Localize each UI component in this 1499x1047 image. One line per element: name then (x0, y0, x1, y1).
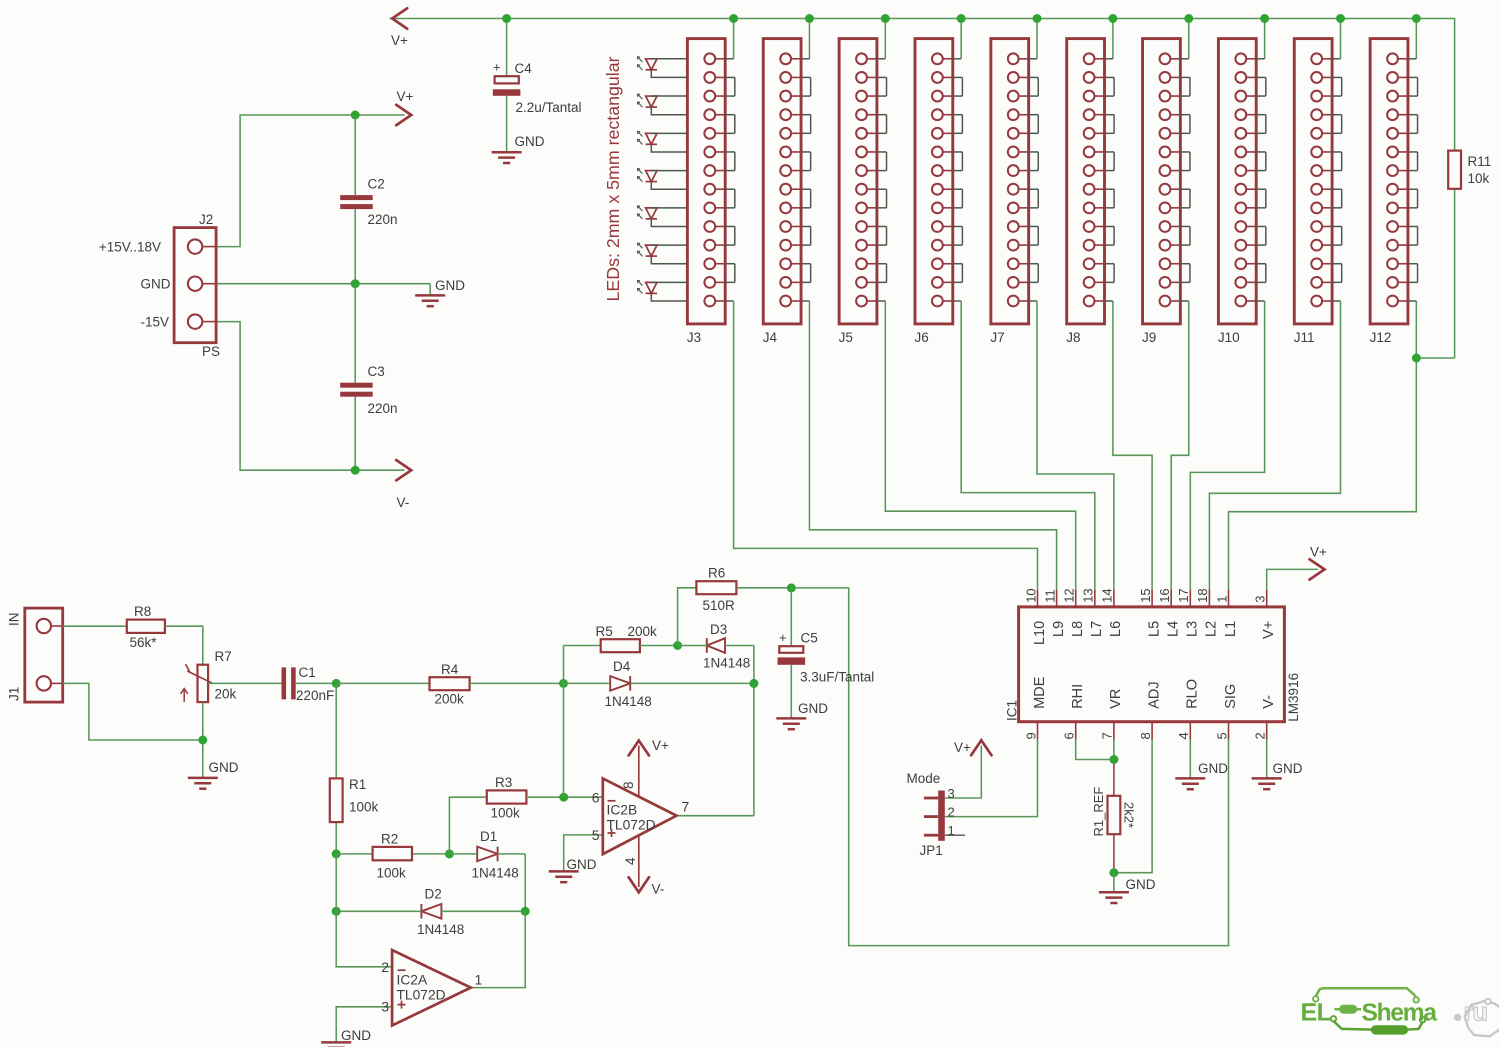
svg-text:7: 7 (1100, 732, 1115, 739)
wire rail to J6 pin1 (960, 19, 962, 59)
svg-text:2.2u/Tantal: 2.2u/Tantal (516, 100, 582, 115)
resistor R1 (330, 777, 379, 822)
wire J3 to IC1 (734, 301, 1038, 590)
svg-text:220n: 220n (368, 401, 398, 416)
pin pair tabs J5 (877, 59, 887, 301)
ground IC1 V- (1252, 761, 1303, 789)
svg-text:J4: J4 (763, 330, 778, 345)
svg-text:SIG: SIG (1223, 684, 1239, 709)
connector J3 (687, 39, 725, 345)
svg-text:RHI: RHI (1070, 684, 1086, 709)
wire IC1 pin3 to V+ (1267, 569, 1318, 589)
svg-text:IC2A: IC2A (397, 973, 428, 988)
junction R1-R2 (332, 849, 341, 858)
connector J4 (763, 39, 801, 345)
svg-text:L10: L10 (1032, 621, 1048, 645)
junction rail-C4 (502, 14, 511, 23)
svg-text:15: 15 (1138, 588, 1153, 602)
svg-text:GND: GND (1273, 761, 1303, 776)
junction rail-J5 (881, 14, 890, 23)
svg-text:J5: J5 (839, 330, 853, 345)
svg-text:D2: D2 (425, 887, 442, 902)
svg-text:J1: J1 (7, 687, 22, 701)
diode D2 (336, 887, 525, 938)
resistor R6 (696, 566, 736, 614)
wire R3 branch (449, 797, 486, 854)
resistor R11 (1448, 151, 1491, 189)
svg-text:17: 17 (1176, 588, 1191, 602)
wire R1 leads (335, 683, 337, 854)
wire node A to R4 (336, 682, 429, 684)
svg-text:+: + (493, 60, 501, 75)
junction V+ PS (351, 111, 360, 120)
wire C3 leads (354, 284, 356, 471)
wire J1 pin2 to ground node (63, 683, 203, 740)
capacitor C3 (340, 364, 397, 416)
connector J8 (1066, 39, 1104, 345)
svg-text:GND: GND (209, 760, 239, 775)
wire C2 leads (354, 115, 356, 284)
svg-text:GND: GND (1198, 761, 1228, 776)
junction rail-J4 (805, 14, 814, 23)
connector J7 (990, 39, 1028, 345)
wire J9 to IC1 (1171, 301, 1189, 590)
svg-text:GND: GND (1126, 877, 1156, 892)
wire IC2B output (677, 815, 754, 817)
svg-text:V+: V+ (652, 738, 669, 753)
svg-text:100k: 100k (349, 800, 379, 815)
svg-text:GND: GND (567, 857, 597, 872)
svg-text:GND: GND (141, 277, 171, 292)
capacitor C5 (778, 630, 875, 685)
resistor R1_REF (1091, 787, 1136, 873)
svg-text:4: 4 (1176, 732, 1191, 739)
junction V- PS (351, 466, 360, 475)
svg-text:2: 2 (1253, 732, 1268, 739)
svg-text:IN: IN (7, 613, 22, 627)
svg-text:C1: C1 (299, 665, 316, 680)
svg-text:510R: 510R (703, 598, 736, 613)
junction C5 node (787, 583, 796, 592)
wire RLO to ground (1189, 740, 1191, 778)
svg-text:L7: L7 (1089, 621, 1105, 637)
svg-text:V+: V+ (1261, 621, 1277, 639)
svg-text:C4: C4 (515, 61, 533, 76)
svg-text:3: 3 (381, 999, 389, 1015)
svg-text:+15V..18V: +15V..18V (99, 240, 161, 255)
svg-text:6: 6 (1062, 732, 1077, 739)
svg-text:R7: R7 (215, 649, 232, 664)
connector J1 (7, 608, 63, 702)
wire RHI to VR node (1076, 740, 1114, 760)
svg-text:IC1: IC1 (1005, 700, 1020, 721)
wire rail to J12 pin1 (1415, 19, 1417, 59)
svg-text:V-: V- (1261, 695, 1277, 709)
svg-text:R2: R2 (381, 832, 398, 847)
junction node D (673, 641, 682, 650)
svg-text:RLO: RLO (1185, 679, 1201, 709)
wire R2 leads (336, 853, 449, 855)
svg-text:R6: R6 (708, 566, 725, 581)
ground PS (415, 278, 465, 306)
svg-text:C5: C5 (801, 631, 818, 646)
resistor R3 (487, 775, 527, 821)
LED 4 on J3 (638, 169, 688, 190)
svg-text:3: 3 (1253, 596, 1268, 603)
wire rail to J10 pin1 (1264, 19, 1266, 59)
wire J12 to IC1 (1229, 301, 1417, 590)
wire rail to J9 pin1 (1188, 19, 1190, 59)
svg-text:1N4148: 1N4148 (605, 694, 652, 709)
svg-text:L2: L2 (1204, 621, 1220, 637)
svg-text:200k: 200k (435, 692, 465, 707)
wire R1 node to IC2A pin2 (336, 854, 392, 967)
pin pair tabs J12 (1408, 59, 1418, 301)
svg-text:VR: VR (1108, 689, 1124, 709)
svg-text:1: 1 (1214, 596, 1229, 603)
svg-text:J12: J12 (1370, 330, 1392, 345)
junction rail-J3 (729, 14, 738, 23)
svg-text:R1_REF: R1_REF (1091, 787, 1106, 837)
svg-text:L8: L8 (1070, 621, 1086, 637)
junction input ground (198, 736, 207, 745)
junction R3-node C (559, 793, 568, 802)
junction R2-D1-R3 (445, 849, 454, 858)
wire C1 to node A (296, 682, 337, 684)
diode D1 (449, 829, 525, 881)
connector J5 (839, 39, 877, 345)
wire R11 leads (1416, 189, 1454, 358)
connector J11 (1294, 39, 1332, 345)
svg-text:2: 2 (948, 805, 955, 820)
svg-text:L6: L6 (1108, 621, 1124, 637)
svg-text:IC2B: IC2B (607, 803, 638, 818)
wire D3-D4 feedback (753, 646, 755, 816)
svg-text:220n: 220n (368, 212, 398, 227)
wire R7 wiper to C1 (208, 682, 281, 684)
wire V+ stub PS (355, 114, 404, 116)
wire J2 pin1 to V+ node (216, 115, 355, 247)
wire JP1 pin3 to V+ (945, 746, 982, 799)
wire J4 to IC1 (809, 301, 1056, 590)
wire J10 to IC1 (1190, 301, 1264, 590)
svg-text:V+: V+ (954, 740, 971, 755)
connector J12 (1370, 39, 1408, 345)
junction GND PS (351, 279, 360, 288)
junction rail-J6 (957, 14, 966, 23)
svg-text:TL072D: TL072D (397, 988, 446, 1003)
junction J12-R11 (1412, 354, 1421, 363)
svg-text:3.3uF/Tantal: 3.3uF/Tantal (800, 670, 874, 685)
pin pair tabs J4 (801, 59, 811, 301)
connector J10 (1218, 39, 1256, 345)
junction rail-J8 (1108, 14, 1117, 23)
wire node B to R5 (564, 645, 601, 647)
svg-text:11: 11 (1042, 589, 1057, 603)
wire J5 to IC1 (885, 301, 1075, 590)
wire J6 to IC1 (961, 301, 1095, 590)
svg-text:1N4148: 1N4148 (472, 866, 519, 881)
svg-text:J10: J10 (1218, 330, 1240, 345)
svg-text:Mode: Mode (907, 771, 941, 786)
V+ arrow top-left (391, 8, 408, 48)
svg-text:12: 12 (1062, 588, 1077, 602)
svg-text:R4: R4 (441, 662, 459, 677)
resistor R4 (430, 662, 470, 707)
svg-text:14: 14 (1100, 588, 1115, 602)
svg-text:1N4148: 1N4148 (417, 922, 464, 937)
ground C4 (492, 134, 545, 163)
LED 1 on J3 (638, 57, 688, 78)
svg-text:9: 9 (1023, 732, 1038, 739)
diode D4 (564, 659, 754, 709)
svg-text:V+: V+ (397, 89, 414, 104)
wire R6 branch (678, 588, 697, 646)
svg-text:MDE: MDE (1032, 676, 1048, 709)
pin pair tabs J8 (1105, 59, 1115, 301)
svg-text:R11: R11 (1468, 154, 1492, 169)
pin pair tabs J11 (1332, 59, 1342, 301)
wire MDE to JP1 pin2 (945, 740, 1038, 817)
wire R8 to R7 (165, 626, 203, 665)
LED 2 on J3 (638, 94, 688, 115)
ground RLO (1175, 761, 1228, 789)
wire R6 to C5 node (736, 587, 791, 589)
wire R1_REF node to ground (1113, 873, 1115, 892)
svg-text:4: 4 (623, 857, 638, 865)
svg-text:R8: R8 (134, 604, 151, 619)
junction node A (332, 679, 341, 688)
svg-text:L1: L1 (1223, 621, 1239, 637)
wire C5 leads (790, 588, 792, 718)
wire rail to J11 pin1 (1339, 19, 1341, 59)
svg-text:3: 3 (948, 786, 955, 801)
wire VR to R1_REF (1113, 740, 1115, 796)
LED 6 on J3 (638, 243, 688, 264)
svg-text:13: 13 (1081, 588, 1096, 602)
wire J1 pin1 to R8 (63, 625, 127, 627)
svg-text:LEDs: 2mm x 5mm rectangular: LEDs: 2mm x 5mm rectangular (603, 56, 623, 301)
wire J7 to IC1 (1037, 301, 1114, 590)
resistor R5 (596, 624, 658, 652)
wire C4 to rail (506, 19, 508, 152)
wire GND row PS (216, 284, 430, 295)
junction rail-J9 (1184, 14, 1193, 23)
svg-text:J2: J2 (199, 212, 213, 227)
wire R4 to node B (470, 682, 564, 684)
LED 5 on J3 (638, 206, 688, 227)
svg-text:56k*: 56k* (130, 635, 158, 650)
svg-text:R1: R1 (349, 777, 366, 792)
capacitor C1 (282, 665, 335, 703)
svg-text:10k: 10k (1468, 171, 1490, 186)
svg-text:1: 1 (948, 823, 955, 838)
label LEDs note (603, 56, 623, 301)
ground IC2A (321, 1028, 371, 1047)
potentiometer R7 (181, 649, 237, 702)
svg-text:8: 8 (1138, 732, 1153, 739)
wire rail to J8 pin1 (1112, 19, 1114, 59)
junction D2-left (332, 907, 341, 916)
LED 7 on J3 (638, 280, 688, 301)
svg-text:V-: V- (397, 495, 410, 510)
wire rail to J3 pin1 (733, 19, 735, 59)
svg-text:V-: V- (652, 882, 665, 897)
junction VR-RHI (1109, 755, 1118, 764)
ground input (188, 760, 239, 789)
wire SIG to signal node (791, 588, 1228, 946)
connector J2 (99, 212, 220, 359)
wire node B to node C (563, 646, 565, 798)
svg-text:10: 10 (1023, 588, 1038, 602)
wire J2 pin3 to V- node (216, 322, 404, 471)
svg-text:GND: GND (435, 278, 465, 293)
svg-text:D1: D1 (480, 829, 497, 844)
svg-text:2: 2 (381, 959, 389, 975)
svg-text:J7: J7 (990, 330, 1004, 345)
svg-text:16: 16 (1157, 588, 1172, 602)
jumper JP1 (907, 771, 966, 858)
junction R1_REF-ADJ (1109, 868, 1118, 877)
svg-text:TL072D: TL072D (607, 818, 656, 833)
V+ arrow IC2B (629, 738, 669, 756)
svg-text:J11: J11 (1294, 330, 1315, 345)
capacitor C4 (493, 60, 582, 116)
junction rail-J10 (1260, 14, 1269, 23)
V+ arrow IC1 pin3 (1310, 545, 1328, 580)
V- arrow PS (396, 460, 411, 510)
junction rail-J7 (1033, 14, 1042, 23)
svg-text:7: 7 (682, 799, 690, 815)
ground IC2B (549, 857, 597, 882)
svg-text:J9: J9 (1142, 330, 1156, 345)
svg-text:1: 1 (475, 972, 483, 988)
wire J8 to IC1 (1113, 301, 1152, 590)
svg-text:C3: C3 (368, 364, 385, 379)
V+ arrow JP1 (954, 740, 992, 755)
svg-text:20k: 20k (215, 687, 237, 702)
svg-text:J6: J6 (914, 330, 928, 345)
ground R1_REF (1099, 877, 1156, 903)
pin pair tabs J10 (1256, 59, 1266, 301)
wire IC2B pin5 to ground (564, 835, 603, 871)
svg-text:L9: L9 (1051, 621, 1067, 637)
wire D1 to D2 node (524, 854, 526, 911)
svg-text:R5: R5 (596, 624, 613, 639)
wire J11 to IC1 (1209, 301, 1340, 590)
wire rail to J4 pin1 (808, 19, 810, 59)
svg-text:LM3916: LM3916 (1286, 673, 1301, 722)
wire rail to J7 pin1 (1036, 19, 1038, 59)
ground C5 (776, 701, 828, 729)
svg-text:C2: C2 (368, 177, 385, 192)
op-amp IC1 LM3916 (1005, 588, 1301, 739)
svg-text:PS: PS (202, 344, 220, 359)
V- arrow IC2B (629, 877, 665, 896)
svg-text:100k: 100k (377, 866, 407, 881)
junction rail-J11 (1336, 14, 1345, 23)
wire R3 to IC2B pin6 (526, 796, 602, 798)
connector J9 (1142, 39, 1180, 345)
svg-text:+: + (779, 630, 787, 645)
svg-text:JP1: JP1 (920, 843, 943, 858)
svg-text:1N4148: 1N4148 (703, 656, 750, 671)
logo EL-Shema.ru (1302, 988, 1499, 1036)
pin pair tabs J7 (1029, 59, 1039, 301)
wire R7 bottom to ground node (202, 702, 204, 777)
svg-text:6: 6 (592, 790, 600, 806)
junction D4 node (749, 679, 758, 688)
svg-text:R3: R3 (495, 775, 512, 790)
wire V- pin2 to ground (1266, 740, 1268, 778)
pin pair tabs J6 (953, 59, 963, 301)
svg-text:-15V: -15V (140, 315, 169, 330)
svg-text:8: 8 (621, 781, 636, 789)
wire IC2A pin3 to ground (336, 1007, 392, 1042)
resistor R8 (127, 604, 165, 650)
wire V+ top rail (390, 19, 1455, 151)
pin pair tabs J9 (1180, 59, 1190, 301)
wire R5 to node D (640, 645, 678, 647)
svg-text:ADJ: ADJ (1146, 681, 1162, 708)
wire ADJ to R1_REF bottom (1114, 740, 1152, 873)
diode D3 (678, 622, 754, 671)
svg-text:D3: D3 (710, 622, 727, 637)
svg-text:200k: 200k (628, 624, 658, 639)
wire IC2A output loop (471, 911, 525, 987)
svg-text:18: 18 (1195, 588, 1210, 602)
svg-text:2k2*: 2k2* (1122, 802, 1137, 828)
svg-text:D4: D4 (613, 659, 631, 674)
svg-text:V+: V+ (391, 33, 408, 48)
connector J6 (914, 39, 952, 345)
op-amp IC2A (381, 950, 482, 1026)
svg-text:J3: J3 (687, 330, 701, 345)
svg-text:L3: L3 (1185, 621, 1201, 637)
junction rail-J12 (1412, 14, 1421, 23)
op-amp IC2B (592, 746, 690, 888)
svg-text:GND: GND (341, 1028, 371, 1043)
svg-text:5: 5 (592, 827, 600, 843)
LED 3 on J3 (638, 131, 688, 152)
svg-text:220nF: 220nF (296, 688, 334, 703)
resistor R2 (373, 832, 412, 881)
pin pair tabs J3 (725, 59, 735, 301)
svg-text:L5: L5 (1146, 621, 1162, 637)
junction D1-D2-right (521, 907, 530, 916)
svg-text:L4: L4 (1166, 621, 1182, 637)
V+ arrow PS (396, 89, 413, 125)
svg-text:GND: GND (515, 134, 545, 149)
wire rail to J5 pin1 (884, 19, 886, 59)
svg-text:GND: GND (798, 701, 828, 716)
svg-text:J8: J8 (1066, 330, 1080, 345)
svg-text:100k: 100k (491, 806, 521, 821)
junction node B (559, 679, 568, 688)
capacitor C2 (340, 177, 397, 228)
svg-text:5: 5 (1214, 732, 1229, 739)
svg-text:V+: V+ (1310, 545, 1327, 560)
